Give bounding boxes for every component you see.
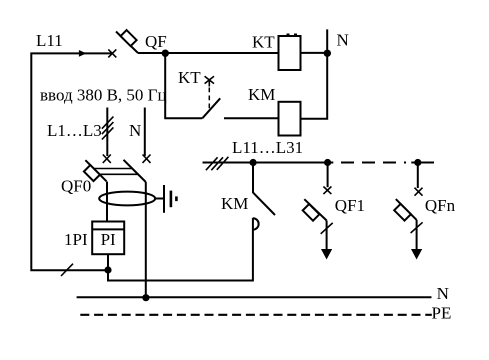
svg-text:L11…L31: L11…L31 [232, 138, 303, 157]
svg-text:PI: PI [101, 230, 116, 249]
svg-text:KM: KM [248, 85, 275, 104]
svg-text:QF: QF [145, 32, 167, 51]
svg-text:PE: PE [432, 304, 452, 323]
svg-text:L1…L3: L1…L3 [47, 121, 102, 140]
svg-text:QF0: QF0 [61, 177, 91, 196]
svg-text:KM: KM [221, 194, 248, 213]
svg-text:L11: L11 [36, 31, 63, 50]
svg-text:KT: KT [178, 68, 201, 87]
svg-text:QFn: QFn [425, 196, 456, 215]
svg-text:N: N [337, 31, 349, 50]
svg-text:QF1: QF1 [335, 196, 365, 215]
svg-text:N: N [129, 121, 141, 140]
svg-text:1PI: 1PI [64, 230, 88, 249]
svg-text:ввод 380 В, 50 Гц: ввод 380 В, 50 Гц [40, 86, 167, 105]
svg-text:KT: KT [252, 33, 275, 52]
svg-text:N: N [437, 284, 449, 303]
